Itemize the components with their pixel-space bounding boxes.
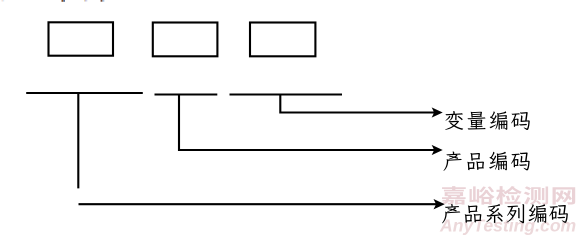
arrowhead: product series code arrow: [434, 200, 444, 209]
arrowhead: variable code arrow: [432, 108, 442, 117]
box 1 (code segment box): [49, 22, 114, 55]
box 2 (code segment box): [153, 23, 218, 57]
label 产品系列编码 (product series code): [442, 204, 568, 223]
wire: horizontal bar under box 2: [155, 93, 218, 95]
label 产品编码 (product code): [444, 151, 530, 170]
wire: vertical stem from bar 1: [77, 93, 79, 188]
box 3 (code segment box): [250, 23, 315, 57]
wire: long bottom line to arrow (product series code): [79, 203, 442, 205]
cut-off text fragments at top edge: [2, 0, 105, 2]
wire: horizontal bar under box 1: [26, 92, 143, 94]
wire: stem from bar 2 down and right to arrow (product code): [179, 95, 440, 151]
label 变量编码 (variable code): [445, 111, 530, 130]
wire: stem from bar 3 down and right to arrow (variable code): [280, 95, 439, 113]
arrowhead: product code arrow: [432, 146, 442, 155]
watermark text 嘉峪检测网: [441, 186, 575, 205]
wire: horizontal bar under box 3: [230, 93, 343, 95]
